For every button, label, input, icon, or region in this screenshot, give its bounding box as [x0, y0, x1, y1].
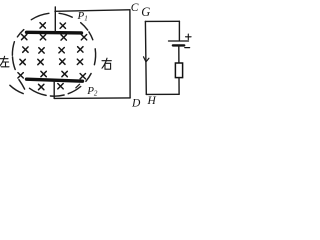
circle dash: top right of wire: [59, 13, 72, 17]
wire: bottom rail D to below P2: [54, 97, 130, 100]
B-field cross r4c3: [60, 59, 65, 64]
resistor R (box): [175, 63, 182, 78]
B-field cross r4c2: [38, 59, 43, 64]
capacitor plate P2: [27, 79, 83, 81]
circle overshoot stroke A (outside, bottom-left): [19, 80, 25, 90]
capacitor plate P1: [27, 31, 82, 35]
circle dash: bottom right near P2 label: [68, 87, 81, 94]
circle dash: bottom: [50, 95, 64, 96]
svg-text:D: D: [131, 97, 141, 109]
circle dash: right upper: [89, 32, 93, 40]
B-field cross r3c3: [59, 48, 64, 53]
battery negative plate (short, thick): [173, 44, 184, 46]
circle dash: left lower: [13, 57, 16, 70]
wire: top-right corner down to battery: [178, 21, 180, 40]
battery - sign: [185, 47, 190, 49]
wire: P1 up to top rail (with overshoot): [54, 7, 56, 32]
circle dash: upper-right under P1 label: [81, 23, 88, 30]
svg-text:P1: P1: [77, 10, 88, 23]
GH loop: top wire: [145, 20, 179, 22]
B-field cross r2c1: [22, 34, 27, 39]
wire: resistor to bottom-right corner: [178, 78, 180, 95]
B-field cross r2c2: [40, 35, 45, 40]
circle dash: bottom left: [30, 88, 47, 95]
circle dash: lower right: [86, 74, 91, 82]
B-field cross r4c4: [77, 59, 82, 64]
circle dash: upper left diag: [17, 30, 23, 37]
circle dash: left upper: [12, 42, 14, 56]
svg-text:G: G: [141, 5, 150, 19]
svg-text:P2: P2: [86, 85, 98, 98]
wire: battery to resistor: [178, 45, 180, 63]
B-field cross r3c4: [78, 47, 83, 52]
GH loop: left wire G to H: [144, 21, 147, 94]
label 右 (right), drawn strokes: [102, 58, 111, 69]
B-field cross r5c4: [80, 74, 85, 79]
B-field cross r5c3: [62, 71, 67, 76]
current arrow (downward) on GH left wire: [144, 57, 149, 62]
B-field cross r6c2: [58, 84, 63, 89]
svg-text:C: C: [131, 2, 139, 14]
battery + sign: [186, 34, 192, 40]
battery positive plate (long): [169, 40, 189, 42]
svg-text:H: H: [147, 95, 157, 107]
circle overshoot stroke B (outside, bottom-left): [10, 85, 23, 93]
wire: vertical C to D: [129, 10, 131, 98]
B-field cross r6c1: [39, 84, 44, 89]
wire: up to plate P2: [53, 81, 55, 98]
GH loop: bottom wire: [146, 93, 179, 95]
B-field cross r5c1: [18, 73, 23, 78]
label 左 (left), drawn strokes: [0, 56, 9, 67]
short stroke near P2 label (scan mark): [76, 84, 80, 88]
B-field cross r2c4: [81, 35, 86, 40]
B-field cross r4c1: [20, 59, 25, 64]
circle dash: top left long: [31, 13, 49, 19]
wire: top rail to corner C: [55, 10, 130, 12]
B-field cross r1c2: [60, 23, 65, 28]
B-field cross r5c2: [41, 71, 46, 76]
B-field cross r3c2: [39, 48, 44, 53]
B-field cross r2c3: [61, 35, 66, 40]
circle dash: right side: [94, 49, 95, 65]
field region boundary: hand-drawn dashed circle: [10, 13, 96, 96]
B-field cross r3c1: [23, 47, 28, 52]
B-field cross r1c1: [40, 23, 45, 28]
